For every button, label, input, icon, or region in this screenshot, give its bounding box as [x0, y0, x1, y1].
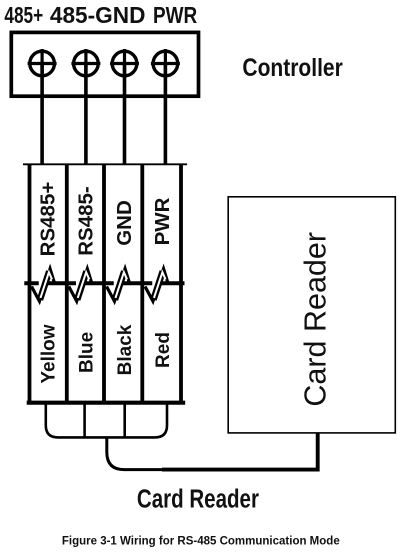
- screw terminal PWR: [151, 49, 180, 78]
- terminal block (controller): [11, 32, 198, 96]
- svg-text:RS485+: RS485+: [36, 182, 59, 257]
- wire break mark col2: [69, 269, 92, 301]
- cable to card reader: [107, 437, 162, 469]
- svg-text:RS485-: RS485-: [75, 186, 98, 256]
- wire 485+: [40, 64, 44, 166]
- svg-text:Black: Black: [115, 324, 136, 375]
- svg-text:Figure 3-1 Wiring for RS-485 C: Figure 3-1 Wiring for RS-485 Communicati…: [62, 536, 340, 548]
- svg-text:485+: 485+: [4, 2, 43, 28]
- svg-text:PWR: PWR: [151, 197, 174, 245]
- cable to card reader (right half): [162, 433, 318, 470]
- screw terminal 485+: [28, 49, 57, 78]
- plug divider 1: [83, 403, 86, 438]
- plug body: [46, 403, 167, 438]
- svg-text:485-GND: 485-GND: [50, 1, 145, 27]
- svg-text:PWR: PWR: [153, 2, 197, 28]
- connector bundle bottom bar: [27, 401, 186, 405]
- card reader box: [228, 197, 395, 433]
- wire break mark col3: [107, 269, 130, 301]
- svg-text:Controller: Controller: [242, 53, 342, 81]
- svg-text:Blue: Blue: [77, 332, 98, 373]
- screw terminal 485-: [71, 49, 100, 78]
- svg-text:GND: GND: [113, 200, 136, 246]
- label: terminal names 485+ 485-GND PWR: [4, 1, 197, 28]
- svg-text:Card Reader: Card Reader: [299, 232, 333, 407]
- wire GND: [123, 64, 127, 166]
- connector bundle vertical borders: [30, 164, 182, 402]
- connector bundle top line: [23, 163, 187, 165]
- wire PWR: [164, 64, 168, 166]
- plug divider 2: [123, 403, 126, 438]
- svg-text:Yellow: Yellow: [38, 324, 59, 383]
- wire break mark col1: [32, 269, 55, 301]
- screw terminal GND: [110, 49, 139, 78]
- break line across bundle: [24, 281, 184, 285]
- wire break mark col4: [145, 269, 168, 301]
- wire 485-: [84, 64, 88, 166]
- svg-text:Red: Red: [153, 332, 174, 368]
- svg-text:Card Reader: Card Reader: [137, 484, 259, 513]
